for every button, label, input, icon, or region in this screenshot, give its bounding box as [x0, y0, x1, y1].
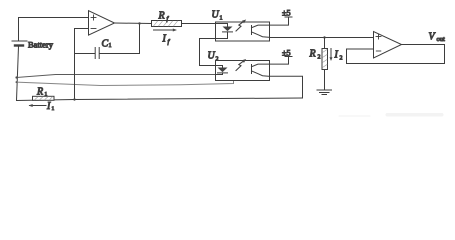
wire bottom rail through R1	[17, 98, 303, 101]
wire U2 collector to +-5 supply	[270, 57, 289, 65]
wire inverting input stub	[75, 28, 89, 30]
resistor R2 bottom lead	[324, 70, 326, 91]
wire opamp1 output	[115, 22, 152, 25]
junction dot output/capacitor	[138, 22, 140, 24]
resistor R2 body (vertical)	[322, 49, 328, 70]
U1 phototransistor Q1	[252, 25, 270, 37]
op-amp minus sign	[91, 28, 96, 30]
terminal bar +-5 (U2)	[285, 56, 292, 58]
svg-text:2: 2	[216, 57, 219, 63]
capacitor C1 plates	[94, 48, 96, 59]
U1 light arrow	[236, 20, 246, 32]
wire Rf to U1 LED	[182, 23, 228, 25]
wire U1 emitter to R2 / opamp2	[270, 37, 374, 39]
svg-text:I: I	[162, 34, 167, 45]
wire opamp2 output to Vout	[402, 44, 445, 46]
current arrow I1 (points left)	[29, 104, 47, 107]
svg-text:I: I	[334, 50, 339, 61]
op-amp U-A (left) triangle	[89, 11, 115, 35]
wire opamp1 inverting feedback vertical x74	[74, 29, 76, 100]
svg-text:f: f	[168, 39, 171, 46]
junction dot at (74,97)	[73, 98, 75, 100]
svg-text:1: 1	[45, 92, 48, 98]
U2 phototransistor Q2	[252, 64, 270, 76]
resistor R1 body	[33, 96, 55, 100]
svg-text:2: 2	[318, 55, 321, 61]
svg-text:1: 1	[109, 43, 112, 49]
wire battery top lead	[18, 18, 20, 41]
op-amp2 plus sign	[376, 34, 381, 39]
current arrow I2 (points down)	[330, 49, 333, 62]
wire U1 LED cathode down to U2 LED anode	[200, 39, 216, 66]
wire opamp2 feedback loop	[347, 45, 445, 64]
svg-text:I: I	[46, 101, 51, 112]
optocoupler U1 package box	[216, 22, 270, 41]
junction battery minus at (17,74)	[15, 76, 17, 78]
wire U2 emitter right and down to bottom rail	[270, 76, 303, 98]
svg-text:R: R	[36, 86, 43, 97]
svg-text:1: 1	[220, 16, 223, 22]
U2 light arrow	[236, 59, 246, 71]
svg-text:R: R	[158, 11, 165, 22]
wire battery+ to opamp1 noninverting input	[19, 17, 89, 19]
svg-text:1: 1	[52, 106, 55, 112]
wire U2 emitter-return horizontal y85	[17, 81, 234, 86]
page artifact smudge bottom right	[339, 113, 444, 118]
svg-text:±5: ±5	[282, 48, 291, 57]
wire battery bottom lead down left column	[17, 47, 19, 101]
current arrow If (points right)	[154, 29, 178, 32]
svg-text:±5: ±5	[282, 9, 291, 18]
U1 LED (anode stub, triangle, cathode bar)	[216, 24, 233, 39]
battery B1 short plate	[15, 44, 23, 46]
resistor Rf body	[152, 21, 182, 27]
ground symbol	[317, 90, 332, 95]
svg-text:U: U	[208, 51, 216, 62]
op-amp2 minus sign	[376, 50, 381, 52]
svg-text:R: R	[309, 49, 316, 60]
terminal bar +-5 (U1)	[285, 16, 292, 18]
wire U1 collector to +-5 supply	[270, 17, 289, 25]
optocoupler U2 package box	[216, 61, 270, 81]
battery B1 long plate	[12, 40, 27, 42]
resistor R2 top lead	[324, 38, 326, 49]
op-amp plus sign	[91, 15, 96, 20]
U2 LED (anode stub, triangle, cathode bar)	[216, 66, 228, 75]
wire node A horizontal y74 to U2 LED cathode	[17, 75, 216, 78]
svg-text:U: U	[212, 10, 220, 21]
svg-text:Battery: Battery	[28, 39, 54, 49]
op-amp U-B (right) triangle	[374, 32, 402, 59]
svg-text:out: out	[437, 36, 446, 43]
capacitor C1 left lead	[75, 53, 95, 55]
svg-text:2: 2	[340, 56, 343, 62]
capacitor C1 right lead up to output	[100, 24, 140, 54]
svg-text:C: C	[102, 39, 109, 50]
junction dot at R2 top	[323, 36, 325, 38]
svg-text:V: V	[429, 32, 437, 43]
